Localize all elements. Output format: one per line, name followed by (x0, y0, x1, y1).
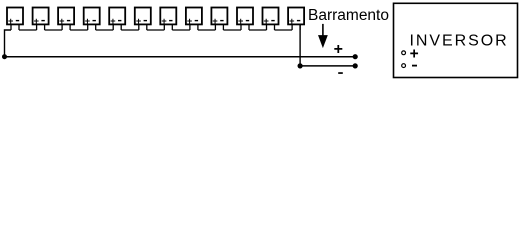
wire series link B10 minus to B11 plus (249, 29, 267, 31)
wire series link B1 minus to B2 plus (19, 29, 37, 31)
PV module B5 (109, 8, 125, 31)
svg-text:Barramento: Barramento (308, 7, 389, 24)
terminal circle positive input (402, 51, 406, 55)
node positive junction dot (2, 54, 7, 59)
PV module B3 (58, 8, 74, 31)
wire series link B4 minus to B5 plus (96, 29, 114, 31)
svg-text:+: + (334, 41, 343, 58)
node negative bus corner dot (298, 63, 303, 68)
PV module B12 (288, 8, 304, 31)
PV module B11 (263, 8, 279, 31)
PV module B1 (7, 8, 23, 31)
svg-text:+: + (410, 45, 419, 62)
label minus polarity of bus (338, 72, 343, 74)
PV module B10 (237, 8, 253, 31)
wire negative bus (300, 65, 355, 67)
wire series link B11 minus to B12 plus (275, 29, 293, 31)
wire series link B9 minus to B10 plus (223, 29, 241, 31)
wire series link B5 minus to B6 plus (121, 29, 139, 31)
terminal circle negative input (402, 64, 406, 68)
svg-text:INVERSOR: INVERSOR (410, 33, 509, 50)
PV module B6 (135, 8, 151, 31)
node negative bus end dot (353, 63, 358, 68)
wire series link B7 minus to B8 plus (172, 29, 190, 31)
PV module B7 (160, 8, 176, 31)
PV module B2 (33, 8, 49, 31)
wire negative string drop (299, 24, 301, 66)
wire series link B3 minus to B4 plus (70, 29, 88, 31)
arrow pointing to bus (318, 24, 328, 48)
wire series link B2 minus to B3 plus (45, 29, 63, 31)
PV module B8 (186, 8, 202, 31)
PV module B4 (84, 8, 100, 31)
label inverter minus terminal (412, 65, 417, 67)
node positive bus end dot (353, 54, 358, 59)
wire series link B8 minus to B9 plus (198, 29, 216, 31)
wire positive string lead left drop (5, 30, 12, 57)
wire positive bus (5, 56, 356, 58)
inverter box U1 (394, 3, 518, 77)
wire series link B6 minus to B7 plus (147, 29, 165, 31)
PV module B9 (211, 8, 227, 31)
